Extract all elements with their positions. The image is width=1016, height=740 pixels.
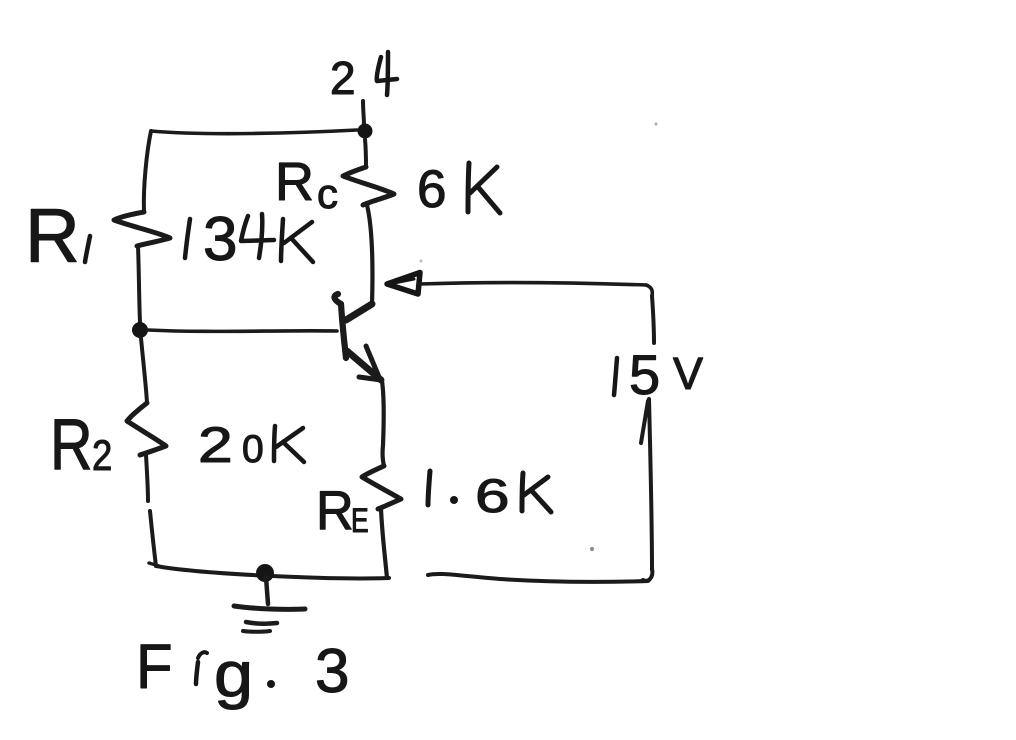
- speck near 15V bottom: [590, 547, 594, 551]
- label: value 6K letter K: [468, 163, 500, 213]
- svg-text:6: 6: [417, 160, 446, 219]
- speck near collector: [420, 260, 423, 263]
- label: value 134K digit 1: [185, 219, 190, 258]
- transistor Q1 base bar: [334, 294, 346, 358]
- resistor R1 zigzag: [114, 212, 170, 246]
- junction: VCC node dot: [358, 124, 373, 139]
- arrowhead pointing at collector (15V loop): [387, 273, 420, 295]
- svg-text:6: 6: [475, 469, 510, 522]
- svg-text:R: R: [316, 480, 354, 542]
- ground symbol bar 3: [243, 629, 270, 634]
- junction: ground node dot: [256, 564, 274, 582]
- arrow barb on 15V vertical (pointing up): [641, 401, 648, 443]
- wire: base wire to transistor: [148, 330, 337, 331]
- wire: top horizontal from R1 to VCC node: [151, 130, 357, 134]
- wire: 24V supply stub: [363, 101, 364, 126]
- svg-text:V: V: [673, 348, 703, 399]
- svg-text:2: 2: [330, 52, 356, 104]
- label: R1 subscript 1: [85, 236, 90, 262]
- svg-text:E: E: [351, 502, 369, 540]
- label: Fig. 3 letter i tick: [198, 652, 207, 658]
- svg-text:R: R: [275, 152, 314, 212]
- wire: left branch upper (VCC to R1): [144, 131, 151, 212]
- label: value 134K letter K: [281, 219, 313, 262]
- wire: left branch mid (R1 to base node): [138, 246, 140, 322]
- label: value 20K letter K: [274, 426, 304, 462]
- wire: 15V right vertical lower with up-arrow: [649, 399, 652, 570]
- wire: Rc bottom lead to collector: [367, 205, 372, 304]
- svg-text:R: R: [25, 194, 80, 279]
- label: value 134K digit 4: [241, 214, 274, 258]
- speck top right: [655, 123, 658, 126]
- wire: bottom-left corner tick: [149, 563, 159, 566]
- svg-text:3: 3: [203, 205, 237, 274]
- label: Fig. 3 period: [267, 680, 275, 688]
- svg-text:2: 2: [92, 432, 112, 479]
- resistor RE zigzag: [362, 466, 401, 509]
- wire: bottom ground rail: [156, 566, 389, 578]
- ground symbol bar 1: [234, 606, 305, 609]
- transistor Q1 emitter arrow barb lower: [359, 377, 381, 380]
- transistor Q1 emitter arrow barb upper: [366, 346, 379, 377]
- resistor Rc zigzag: [343, 167, 394, 205]
- wire: Rc top lead from VCC node: [365, 139, 366, 167]
- wire: 15V right vertical upper: [652, 296, 654, 343]
- svg-text:3: 3: [315, 637, 349, 706]
- wire: RE bottom lead to ground rail: [381, 509, 387, 578]
- label: value 1.6K decimal point: [450, 496, 458, 504]
- wire: emitter lead down to RE: [382, 381, 384, 466]
- ground symbol bar 2: [246, 622, 277, 624]
- label: 24 (supply voltage) digit 4: [377, 52, 397, 95]
- transistor Q1 collector lead diagonal: [346, 304, 372, 320]
- resistor R2 zigzag: [127, 403, 166, 455]
- wire: left branch lower (node to R2): [141, 338, 147, 403]
- label: value 1.6K digit 1: [428, 471, 430, 505]
- transistor Q1 emitter diagonal: [347, 351, 381, 380]
- wire: 15V bottom right corner hook: [643, 568, 652, 581]
- svg-text:2: 2: [198, 417, 233, 473]
- label: 15V digit 1: [614, 358, 617, 395]
- svg-text:F: F: [136, 632, 173, 703]
- svg-text:R: R: [50, 403, 93, 484]
- svg-text:g: g: [214, 639, 253, 710]
- svg-text:0: 0: [242, 428, 264, 471]
- wire: left branch bottom (R2 to ground rail): [146, 455, 148, 501]
- svg-text:5: 5: [629, 343, 660, 406]
- label: value 1.6K letter K: [522, 473, 551, 512]
- wire: 15V bottom horizontal: [428, 574, 648, 582]
- wire: 15V top horizontal line: [420, 283, 646, 285]
- wire: 15V corner hook: [646, 285, 652, 296]
- ground symbol stem: [266, 577, 268, 604]
- svg-text:c: c: [317, 170, 338, 217]
- label: Fig. 3 letter i body: [196, 662, 198, 684]
- junction: base divider node dot: [132, 322, 148, 338]
